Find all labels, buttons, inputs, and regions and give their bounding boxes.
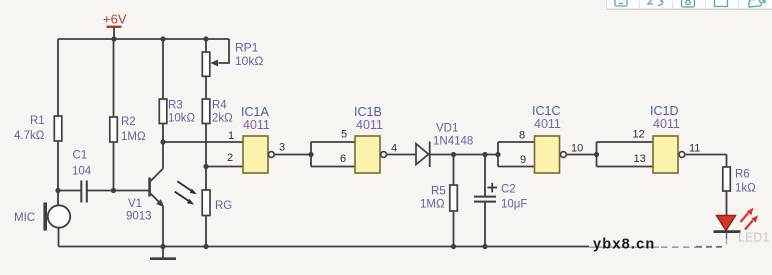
wire C1 base: [58, 190, 149, 192]
node C2 ground junction: [482, 244, 487, 249]
potentiometer RP1: [202, 39, 263, 76]
wire IC1D input split: [597, 142, 654, 167]
svg-text:104: 104: [72, 166, 92, 178]
node watermark ybx8.cn: [589, 246, 659, 248]
wire IC1C output to node: [566, 154, 596, 156]
op NAND gate IC1A: [241, 105, 274, 173]
wire R5 vertical: [453, 155, 455, 247]
svg-text:VD1: VD1: [436, 123, 458, 135]
capacitor C1: [72, 150, 92, 203]
svg-text:1MΩ: 1MΩ: [121, 131, 146, 143]
node IC1C input junction: [495, 152, 500, 157]
svg-text:2kΩ: 2kΩ: [212, 113, 233, 125]
svg-text:13: 13: [634, 153, 646, 165]
svg-text:4: 4: [391, 143, 397, 155]
NAND gate IC1D: [650, 104, 685, 173]
node top rail junction R3: [160, 36, 165, 41]
svg-text:IC1B: IC1B: [354, 105, 382, 119]
svg-text:4011: 4011: [243, 118, 270, 132]
LED LED1: [714, 208, 770, 245]
resistor R1: [14, 115, 62, 142]
wire dashed bottom to LED: [661, 246, 696, 248]
svg-text:9013: 9013: [126, 211, 152, 223]
svg-text:4011: 4011: [356, 118, 383, 132]
ground: [150, 247, 176, 259]
power +6V symbol: [103, 12, 127, 40]
wire IC1A pin1: [163, 141, 243, 143]
resistor R2: [110, 116, 146, 143]
svg-text:9: 9: [520, 154, 526, 166]
svg-text:RP1: RP1: [235, 41, 259, 55]
wire IC1A output to node: [274, 154, 311, 156]
svg-text:10kΩ: 10kΩ: [168, 113, 196, 125]
microphone MIC: [14, 203, 70, 231]
svg-text:R4: R4: [212, 100, 227, 112]
svg-text:8: 8: [519, 130, 525, 142]
svg-text:RG: RG: [215, 200, 232, 212]
svg-text:10μF: 10μF: [501, 199, 527, 211]
node pin1 R3 junction: [160, 139, 165, 144]
svg-text:3: 3: [279, 142, 285, 154]
node RG ground junction: [203, 244, 208, 249]
svg-text:2: 2: [227, 152, 233, 164]
svg-text:LED1: LED1: [738, 231, 769, 245]
svg-text:IC1A: IC1A: [241, 105, 269, 119]
svg-text:C1: C1: [73, 150, 88, 162]
wire IC1D output to R6: [685, 155, 727, 168]
resistor R5: [420, 185, 457, 211]
diode VD1 1N4148: [416, 123, 473, 168]
wire top +6V rail: [58, 38, 229, 40]
svg-text:V1: V1: [128, 198, 142, 210]
resistor R6: [723, 167, 756, 195]
NAND gate IC1C: [532, 104, 566, 173]
resistor R4: [202, 99, 233, 125]
wire diode cathode to IC1C node: [430, 154, 498, 156]
node IC1D input junction: [594, 152, 599, 157]
wire R3 collector vertical: [162, 39, 164, 169]
wire IC1A pin2: [206, 166, 243, 168]
svg-text:R6: R6: [735, 169, 750, 181]
svg-text:R2: R2: [121, 116, 136, 128]
node emitter ground junction: [160, 244, 165, 249]
toolbar fragment top right: [606, 0, 772, 9]
NAND gate IC1B: [354, 105, 387, 173]
svg-text:4011: 4011: [534, 117, 561, 131]
svg-text:11: 11: [689, 143, 700, 155]
svg-text:ybx8.cn: ybx8.cn: [593, 237, 655, 253]
node top rail junction RP1: [203, 36, 208, 41]
svg-text:C2: C2: [501, 184, 516, 196]
svg-text:6: 6: [340, 153, 346, 165]
wire R2 branch vertical: [113, 39, 115, 191]
node C2 junction top: [482, 152, 487, 157]
wire IC1C input split: [498, 142, 535, 167]
wire RP1 R4 RG vertical: [205, 39, 207, 247]
svg-text:1: 1: [228, 130, 234, 142]
svg-text:4011: 4011: [653, 117, 680, 131]
wire C2 vertical: [484, 155, 486, 247]
svg-text:1N4148: 1N4148: [433, 136, 473, 148]
svg-text:+6V: +6V: [103, 12, 127, 27]
resistor R3: [159, 99, 195, 125]
svg-text:IC1D: IC1D: [650, 104, 678, 118]
wire left vertical R1 branch: [57, 39, 59, 205]
svg-text:R3: R3: [168, 100, 183, 112]
capacitor C2: [474, 183, 527, 211]
svg-text:IC1C: IC1C: [532, 104, 560, 118]
wire bottom ground rail: [59, 228, 590, 247]
svg-text:R1: R1: [30, 115, 45, 127]
svg-text:12: 12: [633, 129, 645, 141]
wire IC1B input split: [311, 142, 355, 167]
wire IC1B output to diode: [387, 154, 416, 156]
node IC1B input junction: [308, 152, 313, 157]
svg-text:R5: R5: [431, 186, 446, 198]
node C1 left junction: [55, 188, 60, 193]
wire emitter vertical: [162, 206, 164, 247]
svg-text:5: 5: [341, 129, 347, 141]
node R5 ground junction: [451, 244, 456, 249]
svg-text:1kΩ: 1kΩ: [735, 183, 756, 195]
svg-text:MIC: MIC: [14, 212, 35, 224]
node pin2 RG junction: [203, 164, 208, 169]
svg-text:10kΩ: 10kΩ: [235, 54, 263, 68]
svg-text:1MΩ: 1MΩ: [420, 199, 445, 211]
photoresistor RG: [175, 181, 233, 215]
svg-text:10: 10: [571, 143, 583, 155]
node R5 junction top: [451, 152, 456, 157]
node R2 base junction: [111, 188, 116, 193]
node top rail junction +6V: [111, 36, 116, 41]
transistor V1 9013: [126, 169, 164, 223]
wire R6 to LED: [726, 191, 728, 216]
svg-text:4.7kΩ: 4.7kΩ: [14, 130, 45, 142]
